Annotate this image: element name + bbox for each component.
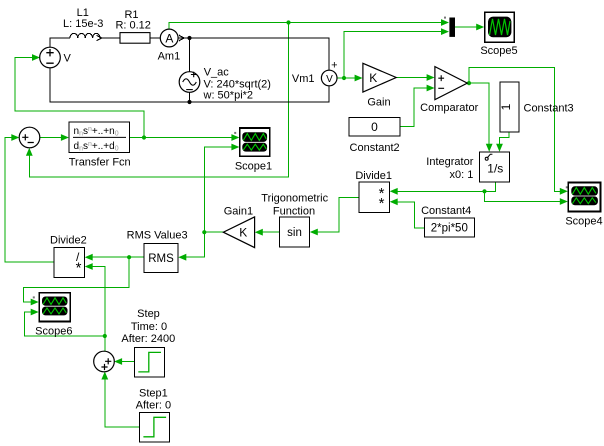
- svg-text:A: A: [165, 31, 173, 45]
- svg-text:K: K: [239, 226, 247, 240]
- svg-text:*: *: [76, 259, 82, 276]
- svg-text:Gain1: Gain1: [224, 205, 253, 217]
- svg-text:V: V: [64, 53, 72, 65]
- svg-text:R: 0.12: R: 0.12: [115, 20, 150, 32]
- svg-text:Scope6: Scope6: [35, 326, 72, 338]
- svg-text:After: 0: After: 0: [136, 399, 171, 411]
- svg-text:V: V: [326, 74, 333, 85]
- svg-text:sin: sin: [287, 227, 302, 239]
- svg-text:Transfer Fcn: Transfer Fcn: [69, 156, 131, 168]
- svg-text:RMS: RMS: [148, 253, 174, 265]
- svg-text:+: +: [331, 60, 337, 72]
- svg-text:Comparator: Comparator: [420, 102, 478, 114]
- svg-text:1: 1: [499, 103, 513, 110]
- svg-text:Scope4: Scope4: [565, 215, 602, 227]
- svg-text:Divide2: Divide2: [50, 234, 87, 246]
- svg-text:Step: Step: [137, 308, 160, 320]
- svg-text:*: *: [379, 195, 385, 212]
- svg-text:Function: Function: [273, 205, 315, 217]
- svg-text:w: 50*pi*2: w: 50*pi*2: [203, 89, 254, 101]
- svg-text:Time: 0: Time: 0: [131, 321, 167, 333]
- svg-text:Scope5: Scope5: [480, 45, 517, 57]
- svg-text:Vm1: Vm1: [292, 73, 315, 85]
- svg-text:RMS Value3: RMS Value3: [127, 230, 188, 242]
- svg-text:Step1: Step1: [139, 387, 168, 399]
- svg-text:1/s: 1/s: [487, 162, 503, 176]
- svg-text:L: 15e-3: L: 15e-3: [63, 18, 103, 30]
- svg-text:Gain: Gain: [367, 97, 390, 109]
- svg-text:Am1: Am1: [158, 51, 181, 63]
- svg-text:0: 0: [371, 120, 378, 134]
- svg-text:Scope1: Scope1: [235, 161, 272, 173]
- svg-text:Constant3: Constant3: [524, 103, 574, 115]
- svg-text:Constant4: Constant4: [421, 205, 471, 217]
- svg-text:K: K: [369, 71, 377, 85]
- svg-text:Integrator: Integrator: [426, 156, 473, 168]
- svg-text:Trigonometric: Trigonometric: [261, 193, 328, 205]
- svg-text:2*pi*50: 2*pi*50: [431, 223, 468, 235]
- svg-text:x0: 1: x0: 1: [450, 169, 474, 181]
- svg-text:Divide1: Divide1: [355, 170, 392, 182]
- svg-text:After: 2400: After: 2400: [121, 333, 175, 345]
- svg-text:V_ac: V_ac: [204, 67, 230, 79]
- svg-text:Constant2: Constant2: [350, 142, 400, 154]
